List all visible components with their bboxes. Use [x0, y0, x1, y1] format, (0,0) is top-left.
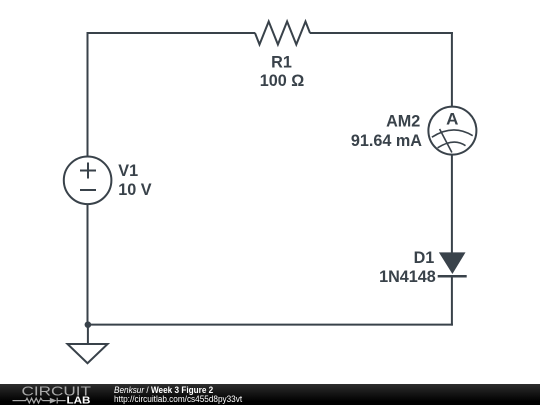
- voltage source V1 plus sign: [80, 163, 96, 179]
- logo doodle wire with resistor and diode: [13, 397, 66, 403]
- wire left lower (V1 to junction): [87, 204, 89, 326]
- svg-text:AM2: AM2: [386, 113, 420, 131]
- svg-text:10 V: 10 V: [118, 181, 152, 199]
- wire bottom segment: [88, 324, 453, 326]
- svg-text:D1: D1: [414, 249, 435, 267]
- voltage source V1 circle: [64, 157, 112, 205]
- wire right upper (to ammeter): [451, 32, 453, 107]
- footer line 2: url text: [114, 394, 242, 405]
- ammeter AM2 needle: [440, 129, 452, 153]
- footer bar: [0, 384, 540, 405]
- svg-text:V1: V1: [118, 162, 138, 180]
- wire right middle (ammeter to diode): [451, 155, 453, 253]
- wire top-right segment: [310, 32, 453, 34]
- diode D1 cathode bar: [438, 275, 467, 278]
- svg-text:A: A: [446, 110, 458, 129]
- ground stub wire: [87, 325, 89, 345]
- CircuitLab logo: [0, 384, 110, 405]
- ammeter AM2 circle: [428, 107, 476, 155]
- diode D1 triangle: [439, 252, 466, 274]
- wire right lower segment: [451, 276, 453, 325]
- svg-text:1N4148: 1N4148: [379, 268, 436, 286]
- voltage source V1 minus sign: [80, 189, 96, 191]
- resistor R1 zigzag: [255, 22, 310, 45]
- svg-text:R1: R1: [271, 53, 292, 71]
- ground symbol triangle: [68, 344, 108, 363]
- ammeter AM2 scale arc big: [432, 130, 473, 137]
- svg-text:91.64 mA: 91.64 mA: [351, 132, 422, 150]
- svg-text:LAB: LAB: [67, 395, 91, 405]
- svg-text:100 Ω: 100 Ω: [260, 72, 305, 90]
- node junction dot: [85, 321, 92, 328]
- wire top-left segment: [87, 32, 256, 34]
- ammeter AM2 scale arc small: [438, 142, 466, 148]
- footer line 1: author / title: [114, 385, 213, 396]
- wire left upper (to V1): [87, 32, 89, 157]
